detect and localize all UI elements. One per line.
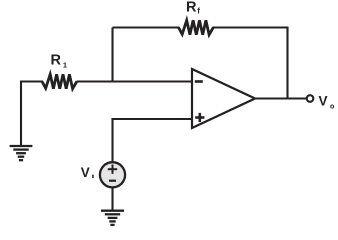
- resistor R1: [42, 74, 77, 88]
- op-amp non-inverting pin plus sign: [195, 113, 204, 122]
- wire: R1 output to op-amp inverting input: [77, 80, 193, 82]
- source minus sign: [109, 180, 116, 182]
- wire: feedback tap vertical from inverting node up to top rail: [111, 28, 113, 82]
- svg-text:V: V: [319, 94, 328, 109]
- op-amp inverting pin minus sign: [195, 80, 203, 83]
- svg-text:R: R: [186, 0, 197, 16]
- svg-text:f: f: [197, 6, 200, 15]
- wire: left segment from ground drop to R1: [21, 82, 43, 147]
- wire: op-amp output to terminal: [255, 97, 307, 99]
- output terminal circle: [307, 95, 314, 102]
- svg-text:R: R: [51, 53, 62, 69]
- wire: non-inverting input from source branch: [113, 119, 193, 162]
- wire: top feedback rail left of Rf: [113, 26, 180, 28]
- source plus sign: [108, 165, 117, 174]
- wire: source bottom to ground: [111, 188, 113, 211]
- ground (left): [10, 146, 33, 160]
- voltage source Vi: [100, 162, 125, 187]
- ground (source): [101, 211, 124, 225]
- op-amp U1: [192, 69, 255, 128]
- wire: top feedback rail right of Rf down to output: [213, 28, 288, 99]
- svg-text:V: V: [81, 165, 90, 180]
- svg-text:1: 1: [63, 60, 67, 69]
- svg-text:o: o: [330, 103, 334, 110]
- resistor Rf: [179, 20, 214, 34]
